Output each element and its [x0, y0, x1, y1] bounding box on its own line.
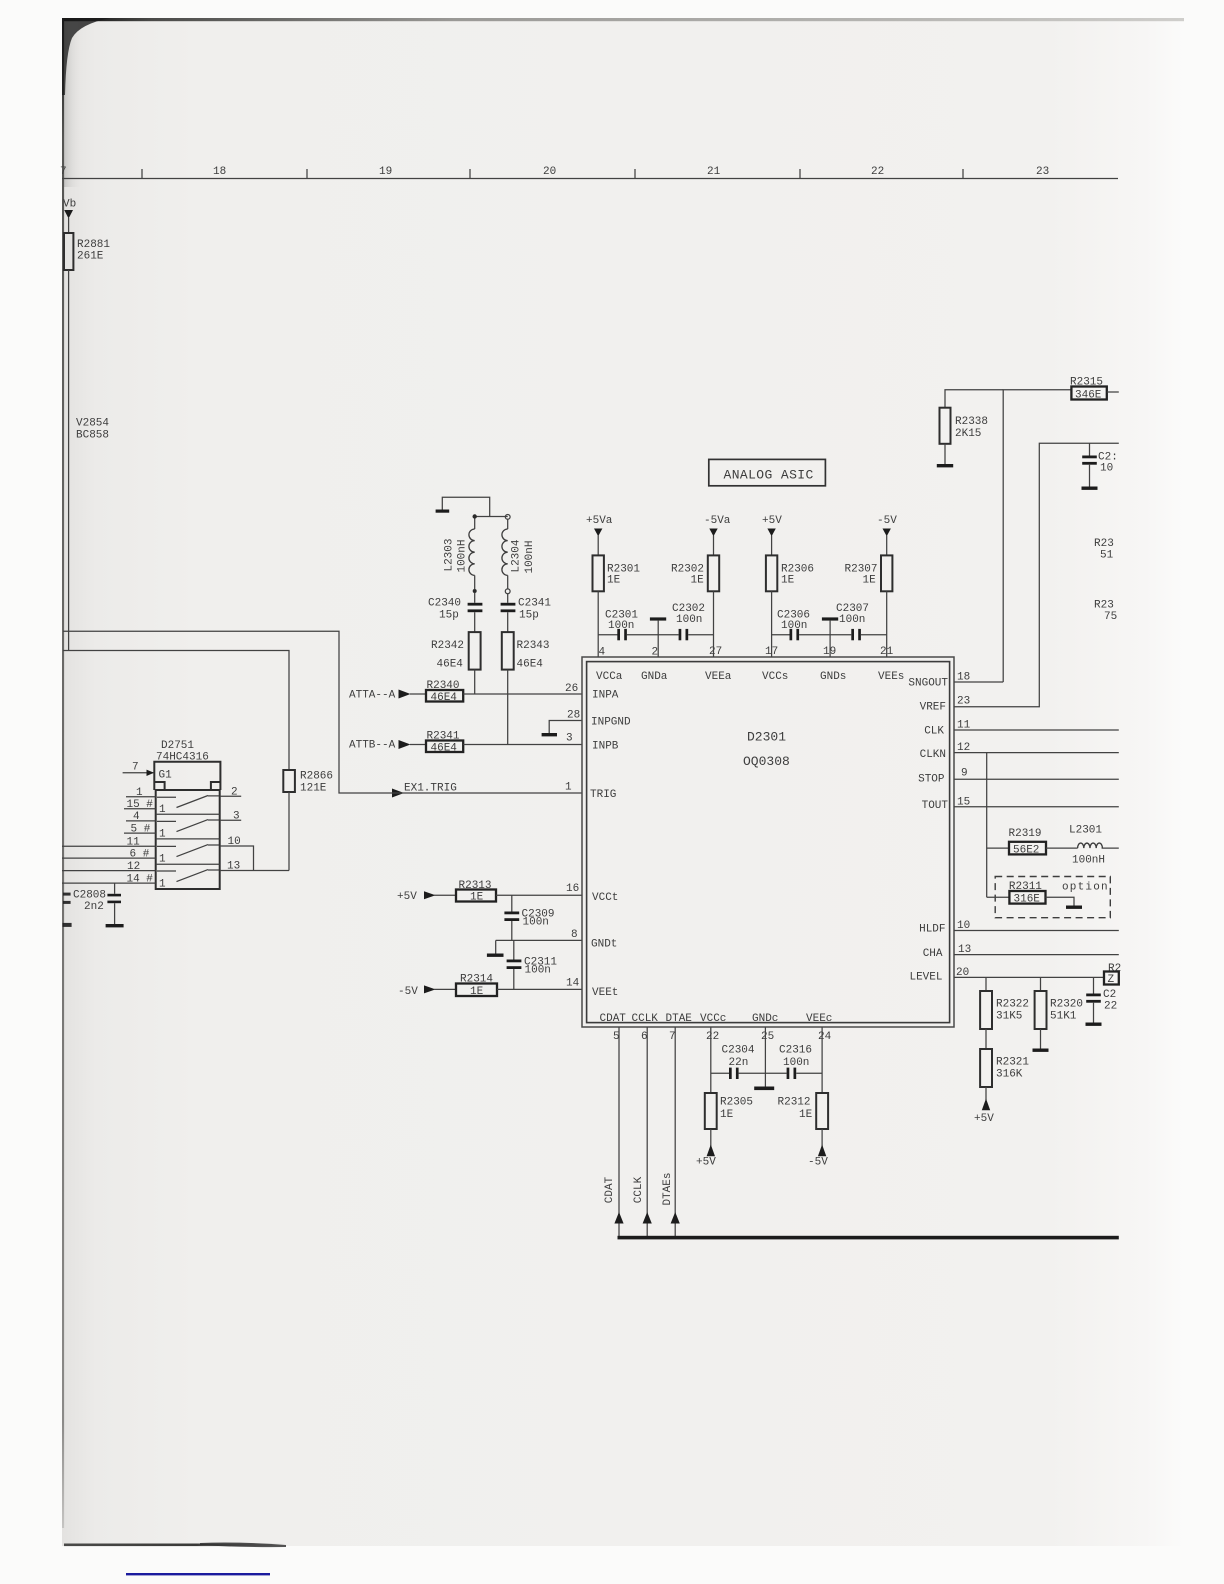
svg-text:18: 18 — [213, 166, 226, 178]
wire STOP pin 9 — [954, 778, 1119, 780]
svg-text:100nH: 100nH — [1072, 855, 1105, 867]
wire GNDa to pin 2 — [657, 621, 659, 657]
svg-text:D2301: D2301 — [747, 730, 786, 745]
svg-text:14 #: 14 # — [127, 873, 154, 885]
svg-text:1E: 1E — [781, 575, 795, 587]
resistor R2312 1E — [816, 1093, 828, 1129]
svg-text:BC858: BC858 — [76, 430, 109, 442]
svg-text:24: 24 — [818, 1031, 832, 1043]
capacitor C2311 100n — [513, 940, 515, 959]
svg-text:22: 22 — [871, 166, 884, 178]
capacitor C2307 100n — [851, 629, 854, 640]
resistor R2338 2K15 — [940, 408, 951, 444]
svg-text:1E: 1E — [470, 892, 484, 904]
wire R2302 to pin 27 — [713, 591, 715, 657]
svg-text:6 #: 6 # — [130, 848, 150, 860]
svg-text:1: 1 — [159, 804, 166, 816]
ground under C2808 — [106, 924, 124, 927]
svg-text:1E: 1E — [863, 575, 877, 587]
svg-text:51K1: 51K1 — [1050, 1011, 1077, 1023]
wire R2866 to pin13 net — [288, 792, 290, 871]
resistor R2301 1E — [593, 555, 604, 591]
svg-text:1E: 1E — [470, 986, 484, 998]
resistor R2302 1E — [713, 536, 715, 556]
wire VCCc pin 22 — [710, 1027, 712, 1093]
capacitor C23xx 100 (cut) — [1089, 443, 1091, 455]
svg-text:+5V: +5V — [397, 891, 417, 903]
svg-text:13: 13 — [227, 860, 240, 872]
wire Vb to R2881 — [68, 218, 70, 233]
wire ATTA to R2340 — [410, 693, 426, 695]
svg-text:VEEs: VEEs — [878, 671, 904, 683]
switch 4 symbol — [157, 870, 219, 882]
wire CHA pin 13 — [954, 954, 1119, 956]
svg-text:316K: 316K — [996, 1069, 1023, 1081]
option dashed box — [995, 877, 1110, 918]
wire LEVEL pin 20 — [954, 976, 1104, 978]
bus wire (thick) — [618, 1236, 1119, 1240]
svg-text:VCCa: VCCa — [596, 671, 623, 683]
resistor R2305 1E — [705, 1093, 717, 1129]
svg-text:INPA: INPA — [592, 690, 619, 702]
svg-text:VCCt: VCCt — [592, 892, 618, 904]
svg-text:10: 10 — [228, 836, 241, 848]
pin 13 wire — [220, 870, 289, 872]
svg-text:121E: 121E — [300, 783, 327, 795]
wire R2342 to INPA net — [474, 670, 476, 694]
wire CLKN branch rail down — [986, 753, 988, 898]
svg-text:100n: 100n — [525, 965, 551, 977]
wire DTAE pin 7 — [674, 1027, 676, 1238]
wire R2343 to INPB net — [507, 670, 509, 745]
svg-text:20: 20 — [543, 166, 556, 178]
svg-text:8: 8 — [571, 929, 578, 941]
svg-text:TOUT: TOUT — [922, 800, 949, 812]
wire stub page edge b — [63, 901, 71, 904]
svg-text:ATTA--A: ATTA--A — [349, 690, 396, 702]
svg-text:2: 2 — [652, 647, 659, 659]
capacitor C2304 22n — [711, 1072, 729, 1074]
svg-text:46E4: 46E4 — [517, 659, 544, 671]
supply Vb arrow — [64, 210, 73, 219]
wire GNDc pin 25 — [764, 1027, 766, 1087]
svg-text:DTAE: DTAE — [666, 1013, 693, 1025]
svg-text:22: 22 — [1104, 1001, 1117, 1013]
svg-text:100n: 100n — [783, 1057, 809, 1069]
svg-text:option: option — [1062, 882, 1109, 894]
svg-text:1E: 1E — [691, 575, 705, 587]
capacitor C2302 100n — [679, 629, 682, 640]
wire R2301 to pin 4 — [597, 591, 599, 657]
svg-text:GNDs: GNDs — [820, 671, 846, 683]
svg-text:CCLK: CCLK — [632, 1013, 659, 1025]
svg-text:C2304: C2304 — [722, 1045, 755, 1057]
pin 4 wire — [126, 820, 156, 822]
page top edge shadow — [62, 18, 1184, 21]
pin 12 wire — [62, 870, 156, 872]
svg-text:1: 1 — [159, 879, 166, 891]
svg-text:1E: 1E — [607, 575, 621, 587]
IC D2751 control block G1 — [154, 762, 220, 790]
svg-text:28: 28 — [567, 710, 580, 722]
svg-text:R2322: R2322 — [996, 999, 1029, 1011]
wire CCLK pin 6 — [646, 1027, 648, 1238]
inductor L2301 100nH — [1046, 847, 1078, 849]
node L2304 top (open) — [505, 515, 510, 520]
supply -5V under R2312 — [821, 1129, 823, 1147]
capacitor C2341 15p — [507, 594, 509, 603]
svg-text:R2866: R2866 — [300, 771, 333, 783]
svg-text:R23: R23 — [1094, 538, 1114, 550]
svg-text:ANALOG ASIC: ANALOG ASIC — [724, 468, 814, 483]
svg-text:21: 21 — [707, 166, 721, 178]
ruler tick 21/22 — [799, 169, 801, 179]
arrow CDAT — [614, 1212, 623, 1224]
svg-text:R2343: R2343 — [517, 640, 550, 652]
svg-text:26: 26 — [565, 683, 578, 695]
pin 10 wire — [220, 846, 254, 871]
arrow DTAE — [671, 1212, 680, 1224]
resistor R2306 1E — [771, 536, 773, 556]
svg-text:GNDc: GNDc — [752, 1013, 778, 1025]
wire R2340 to pin 26 — [463, 693, 582, 695]
capacitor C2808 2n2 — [114, 883, 116, 894]
svg-text:+5Va: +5Va — [586, 515, 613, 527]
wire VREF pin 23 rail — [954, 443, 1119, 707]
svg-text:R23: R23 — [1094, 600, 1114, 612]
svg-text:G1: G1 — [159, 770, 173, 782]
svg-text:INPGND: INPGND — [591, 717, 631, 729]
wire CLKN pin 12 — [954, 752, 1119, 754]
pin 15 wire — [124, 808, 156, 810]
svg-text:C2341: C2341 — [518, 598, 551, 610]
ANALOG ASIC title box — [709, 459, 826, 485]
ruler tick 17/18 — [141, 169, 143, 179]
top-left corner dark blob — [62, 18, 110, 95]
node L2303 bottom dot — [473, 589, 477, 593]
svg-text:L2303: L2303 — [444, 538, 456, 571]
capacitor C2340 15p — [474, 593, 476, 603]
svg-text:R2320: R2320 — [1050, 999, 1083, 1011]
svg-text:-5V: -5V — [808, 1157, 828, 1169]
pin 7 wire — [123, 772, 155, 774]
svg-text:100nH: 100nH — [457, 539, 469, 572]
wire R2881 down left rail — [68, 270, 70, 651]
ground bar GNDs — [822, 617, 838, 620]
svg-text:22n: 22n — [729, 1057, 749, 1069]
capacitor C2316 100n — [787, 1068, 790, 1079]
wire HLDF pin 10 — [954, 930, 1119, 932]
svg-text:23: 23 — [1036, 166, 1049, 178]
wire R2315 out right — [1107, 391, 1119, 393]
svg-text:100n: 100n — [839, 614, 865, 626]
svg-text:3: 3 — [566, 733, 573, 745]
ground GNDt — [495, 940, 497, 953]
svg-text:1: 1 — [136, 787, 143, 799]
wire ATTB to R2341 — [410, 744, 426, 746]
svg-text:1: 1 — [159, 829, 166, 841]
svg-text:16: 16 — [566, 883, 579, 895]
svg-text:Z: Z — [1108, 974, 1115, 986]
svg-text:VREF: VREF — [920, 702, 946, 714]
svg-text:100n: 100n — [676, 614, 702, 626]
svg-text:14: 14 — [566, 978, 580, 990]
svg-text:R2321: R2321 — [996, 1057, 1029, 1069]
node L2303 top (junction dot) — [473, 514, 477, 518]
capacitor C2xxx 22 (cut) — [1093, 977, 1095, 993]
wire VEEc pin 24 — [821, 1027, 823, 1093]
svg-text:22: 22 — [706, 1031, 719, 1043]
svg-text:3: 3 — [233, 811, 240, 823]
ruler tick 18/19 — [306, 169, 308, 179]
svg-text:GNDa: GNDa — [641, 671, 668, 683]
svg-text:R2338: R2338 — [955, 416, 988, 428]
svg-text:CDAT: CDAT — [600, 1013, 627, 1025]
wire R2338 top tap — [945, 390, 1003, 408]
svg-text:CCLK: CCLK — [633, 1176, 645, 1203]
resistor R2321 316K — [985, 1029, 987, 1049]
svg-text:31K5: 31K5 — [996, 1011, 1022, 1023]
svg-text:46E4: 46E4 — [431, 692, 458, 704]
svg-text:L2301: L2301 — [1069, 825, 1102, 837]
svg-text:15 #: 15 # — [127, 799, 154, 811]
wire R2307 to pin 21 — [886, 591, 888, 657]
wire R2306 to pin 17 — [771, 591, 773, 657]
wire R2314 to pin 14 — [497, 988, 582, 990]
pin 5 wire — [124, 832, 156, 834]
resistor R2307 1E — [886, 536, 888, 556]
ground INPGND pin28 — [549, 721, 582, 734]
resistor R2320 51K1 — [1040, 977, 1042, 991]
op-amp U1 / IC D2301 OQ0308 analog ASIC box — [582, 657, 954, 1027]
svg-text:STOP: STOP — [918, 774, 945, 786]
svg-text:2K15: 2K15 — [955, 428, 981, 440]
wire SNGOUT pin 18 — [954, 681, 1003, 683]
ground above L2303 — [442, 497, 489, 516]
supply +5V under R2305 — [710, 1129, 712, 1147]
svg-text:12: 12 — [127, 861, 140, 873]
svg-text:46E4: 46E4 — [431, 743, 458, 755]
svg-text:5 #: 5 # — [131, 823, 151, 835]
switch 3 symbol — [157, 845, 219, 857]
svg-text:23: 23 — [957, 696, 970, 708]
svg-text:27: 27 — [709, 646, 722, 658]
svg-text:100n: 100n — [523, 917, 549, 929]
svg-text:VCCc: VCCc — [700, 1013, 726, 1025]
switch row dividers — [156, 813, 220, 815]
svg-text:+5V: +5V — [762, 515, 782, 527]
IC D2751 switch box — [156, 790, 220, 889]
wire net A horizontal to EX1.TRIG — [63, 631, 392, 793]
svg-text:INPB: INPB — [592, 741, 619, 753]
svg-text:51: 51 — [1100, 550, 1114, 562]
svg-text:100nH: 100nH — [524, 540, 536, 573]
inductor L2303 100nH — [474, 519, 476, 530]
wire TOUT pin 15 — [954, 806, 1119, 808]
resistor R2342 46E4 — [469, 632, 481, 670]
svg-text:2: 2 — [231, 787, 238, 799]
svg-text:SNGOUT: SNGOUT — [908, 678, 948, 690]
wire R2341 to pin 3 — [463, 744, 582, 746]
svg-text:C2340: C2340 — [428, 598, 461, 610]
svg-text:46E4: 46E4 — [437, 659, 464, 671]
blue pen line bottom left — [126, 1573, 270, 1575]
svg-text:9: 9 — [961, 768, 968, 780]
supply +5V under R2321 — [985, 1087, 987, 1100]
svg-text:R2881: R2881 — [77, 239, 110, 251]
capacitor C2301 100n — [598, 634, 617, 636]
svg-text:1: 1 — [565, 782, 572, 794]
wire joining L2303 L2304 tops — [475, 516, 508, 518]
pin 11 wire — [62, 845, 156, 847]
svg-text:+5V: +5V — [974, 1113, 994, 1125]
svg-text:V2854: V2854 — [76, 418, 109, 430]
wire stub page edge c — [63, 923, 72, 927]
svg-text:OQ0308: OQ0308 — [743, 754, 790, 769]
svg-text:CLKN: CLKN — [920, 749, 946, 761]
ruler tick 20/21 — [634, 169, 636, 179]
capacitor C2309 100n — [511, 895, 513, 911]
ruler tick 19/20 — [469, 169, 471, 179]
svg-text:19: 19 — [379, 166, 392, 178]
wire +5Va to R2301 — [597, 536, 599, 556]
switch 1 symbol — [157, 796, 219, 808]
svg-text:10: 10 — [1100, 463, 1113, 475]
svg-text:-5V: -5V — [877, 515, 897, 527]
svg-text:D2751: D2751 — [161, 740, 194, 752]
switch 2 symbol — [157, 820, 219, 832]
svg-text:15p: 15p — [519, 610, 539, 622]
arrow CCLK — [643, 1212, 652, 1224]
svg-text:L2304: L2304 — [511, 539, 523, 572]
svg-text:VCCs: VCCs — [762, 671, 788, 683]
pin 14 wire — [62, 882, 156, 884]
svg-text:ATTB--A: ATTB--A — [349, 740, 396, 752]
svg-text:-5Va: -5Va — [704, 515, 731, 527]
svg-text:DTAEs: DTAEs — [662, 1172, 674, 1205]
resistor R2314 1E (boxed) — [434, 988, 456, 990]
wire CLK pin 11 — [954, 729, 1119, 731]
svg-text:R2319: R2319 — [1009, 828, 1042, 840]
svg-text:R2312: R2312 — [778, 1097, 811, 1109]
svg-text:C2316: C2316 — [779, 1045, 812, 1057]
svg-text:CLK: CLK — [924, 726, 944, 738]
svg-text:75: 75 — [1104, 611, 1117, 623]
svg-text:GNDt: GNDt — [591, 939, 617, 951]
svg-text:100n: 100n — [781, 620, 807, 632]
pin 6 wire — [62, 857, 156, 859]
svg-text:1E: 1E — [799, 1109, 813, 1121]
wire GNDs to pin 19 — [829, 621, 831, 657]
resistor R2311 316E (boxed, option) — [987, 896, 1010, 898]
svg-text:R2305: R2305 — [720, 1097, 753, 1109]
svg-text:7: 7 — [60, 166, 67, 178]
wire R2313 to pin 16 — [496, 894, 582, 896]
wire SNGOUT rail up to R2315 — [1003, 390, 1071, 682]
resistor R2343 46E4 — [502, 632, 514, 670]
wire net B horizontal to R2866 — [63, 651, 289, 771]
svg-text:+5V: +5V — [696, 1157, 716, 1169]
svg-text:1: 1 — [159, 854, 166, 866]
svg-text:R2342: R2342 — [431, 640, 464, 652]
svg-text:11: 11 — [127, 837, 141, 849]
pin 3 wire — [220, 819, 242, 821]
ground GNDc — [754, 1087, 774, 1091]
pin 1 wire — [126, 796, 156, 798]
resistor R2313 1E (boxed) — [434, 894, 456, 896]
resistor R2322 31K5 — [985, 977, 987, 991]
ground under R2320 — [1040, 1029, 1042, 1049]
svg-text:HLDF: HLDF — [919, 924, 945, 936]
resistor R2881 261E — [64, 233, 73, 270]
wire GNDt pin 8 — [496, 939, 582, 941]
svg-text:4: 4 — [133, 811, 140, 823]
svg-text:7: 7 — [132, 762, 139, 774]
wire CDAT pin 5 — [618, 1027, 620, 1238]
svg-text:CHA: CHA — [923, 948, 943, 960]
page left edge shadow — [62, 18, 64, 1528]
svg-text:TRIG: TRIG — [590, 789, 616, 801]
page bottom edge line — [64, 1544, 286, 1547]
svg-text:316E: 316E — [1014, 894, 1041, 906]
svg-text:2n2: 2n2 — [84, 901, 104, 913]
svg-text:Vb: Vb — [63, 199, 76, 211]
ruler tick 22/23 — [962, 169, 964, 179]
svg-text:15p: 15p — [439, 610, 459, 622]
wire stub page edge a — [63, 893, 71, 896]
pin 2 wire — [220, 795, 242, 797]
ground under R2338 — [944, 444, 946, 464]
grid ruler line — [62, 178, 1118, 180]
svg-text:56E2: 56E2 — [1013, 845, 1039, 857]
resistor R2866 121E — [283, 770, 295, 792]
svg-text:CDAT: CDAT — [604, 1176, 616, 1203]
svg-text:C2808: C2808 — [73, 890, 106, 902]
ground in option box — [1046, 897, 1075, 905]
svg-text:1E: 1E — [720, 1109, 734, 1121]
svg-text:4: 4 — [599, 647, 606, 659]
svg-text:346E: 346E — [1075, 390, 1102, 402]
node L2304 bottom (open) — [505, 589, 510, 594]
resistor R2319 56E2 (boxed) — [987, 847, 1009, 849]
svg-text:VEEc: VEEc — [806, 1013, 832, 1025]
svg-text:261E: 261E — [77, 251, 104, 263]
svg-text:25: 25 — [761, 1031, 774, 1043]
svg-text:100n: 100n — [608, 620, 634, 632]
inductor L2304 100nH — [507, 519, 509, 529]
svg-text:LEVEL: LEVEL — [909, 972, 942, 984]
svg-text:VEEa: VEEa — [705, 671, 732, 683]
capacitor C2306 100n — [772, 634, 790, 636]
svg-text:-5V: -5V — [398, 986, 418, 998]
svg-text:C2: C2 — [1103, 989, 1116, 1001]
svg-text:VEEt: VEEt — [592, 987, 618, 999]
ground bar GNDa — [650, 617, 666, 620]
